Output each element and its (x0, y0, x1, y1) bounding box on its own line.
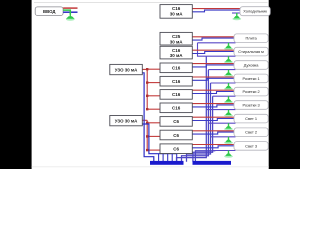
ground symbol row 5 (224, 83, 233, 90)
wire phase stub to breaker row 7 (147, 108, 160, 110)
load label Холодильник (240, 7, 270, 16)
wire neutral tick 3 on left bus (167, 154, 169, 162)
ground symbol row 2 (224, 43, 233, 50)
wire PE row 7 (206, 109, 235, 111)
divider line bottom (32, 166, 269, 168)
wire phase bus vertical УЗО 1 group (146, 68, 148, 109)
faint rule top (34, 2, 268, 4)
load label Духовка (234, 61, 268, 70)
wire PE row 3 (206, 55, 235, 57)
svg-text:30 мА: 30 мА (170, 53, 184, 58)
wire phase row 1 (192, 8, 240, 10)
breaker C6 row 10 (160, 144, 192, 154)
wire phase stub to breaker row 10 (147, 149, 160, 151)
wire PE riser 5 to earth bus (195, 151, 214, 162)
ground symbol row 8 (224, 123, 233, 130)
ground symbol row 3 (224, 56, 233, 63)
svg-text:C16: C16 (172, 48, 181, 53)
wire phase row 8 (192, 116, 234, 118)
wire neutral row 4 (192, 65, 234, 67)
svg-text:30 мА: 30 мА (170, 39, 184, 44)
svg-text:Свет 3: Свет 3 (245, 143, 257, 148)
wire neutral row 1 (192, 10, 240, 12)
load label Розетки 2 (234, 87, 268, 96)
wire phase bus vertical УЗО 2 group (146, 120, 148, 150)
svg-text:C16: C16 (172, 6, 181, 11)
wire phase row 3 (192, 49, 234, 51)
svg-text:C16: C16 (172, 106, 181, 111)
wire neutral tick 4 on left bus (171, 154, 173, 162)
RCD УЗО 2 30 мА (110, 116, 143, 126)
wire L phase stub from ВВОД (63, 7, 77, 9)
wire PE stub from ВВОД (63, 10, 70, 14)
breaker C6 row 9 (160, 130, 192, 140)
ground symbol row 1 (232, 13, 241, 20)
svg-text:C6: C6 (173, 147, 179, 152)
ground symbol row 7 (224, 110, 233, 117)
breaker C16 30 мА row 3 (160, 46, 192, 59)
RCD УЗО 1 30 мА (110, 64, 143, 74)
wire phase stub to breaker row 5 (147, 82, 160, 84)
svg-text:Свет 1: Свет 1 (245, 116, 257, 121)
wire neutral row 10 (192, 146, 234, 148)
svg-text:Духовка: Духовка (244, 62, 260, 67)
svg-text:Свет 2: Свет 2 (245, 130, 257, 135)
neutral bus bar N (150, 161, 184, 165)
load label Розетки 3 (234, 101, 268, 110)
wire PE riser 1 to earth bus (177, 56, 207, 162)
junction node row 8 (146, 122, 148, 124)
wire PE row 2 (198, 42, 236, 44)
svg-text:Холодильник: Холодильник (243, 9, 267, 14)
wire N neutral stub from ВВОД (63, 11, 77, 13)
load label Розетки 1 (234, 74, 268, 83)
junction node row 4 (146, 68, 148, 70)
wire PE riser 4 to earth bus (193, 96, 213, 162)
wire neutral tick 2 on left bus (162, 154, 164, 162)
wire phase stub to breaker row 9 (147, 135, 160, 137)
wire neutral tick 5 on left bus (176, 154, 178, 162)
wire neutral row 7 (192, 105, 234, 107)
wire PE riser 3 to earth bus (187, 83, 211, 162)
black pillarbox left (0, 0, 32, 169)
breaker C16 row 7 (160, 103, 192, 113)
breaker C16 30 мА row 1 (160, 5, 192, 19)
svg-text:C16: C16 (172, 66, 181, 71)
breaker C16 row 5 (160, 76, 192, 86)
breaker C25 30 мА row 2 (160, 32, 192, 45)
wire neutral row 8 (192, 119, 234, 121)
junction node row 10 (146, 149, 148, 151)
svg-text:Розетки 2: Розетки 2 (242, 89, 259, 94)
load label Плита (234, 34, 268, 43)
wire PE row 5 (211, 82, 236, 84)
wire phase row 10 (192, 144, 234, 146)
load label Свет 1 (234, 114, 268, 123)
svg-text:Розетки 1: Розетки 1 (242, 76, 259, 81)
load label Стиральная м (234, 47, 268, 56)
wire PE row 10 (213, 150, 236, 152)
svg-text:C6: C6 (173, 133, 179, 138)
wire neutral tick 1 on left bus (158, 154, 160, 162)
wire phase row 6 (192, 89, 234, 91)
wire phase stub to breaker row 6 (147, 95, 160, 97)
svg-text:C16: C16 (172, 92, 181, 97)
wire PE stub row 1 (232, 12, 242, 14)
svg-text:УЗО 30 мА: УЗО 30 мА (115, 68, 138, 73)
ground symbol row 6 (224, 96, 233, 103)
svg-text:C6: C6 (173, 119, 179, 124)
wire neutral drop from УЗО 2 (142, 124, 177, 154)
wire phase feed from УЗО 2 (142, 119, 147, 121)
wire phase row 5 (192, 76, 234, 78)
wire PE riser 2 to earth bus (182, 70, 209, 162)
ground symbol row 9 (224, 137, 233, 144)
main input box ВВОД (35, 7, 63, 16)
junction node row 9 (146, 135, 148, 137)
wire neutral row 6 (192, 92, 234, 94)
junction node row 5 (146, 81, 148, 83)
wire phase row 9 (192, 130, 234, 132)
svg-text:C25: C25 (172, 34, 181, 39)
load label Свет 3 (234, 142, 268, 151)
junction node row 7 (146, 108, 148, 110)
breaker C16 row 4 (160, 63, 192, 73)
svg-text:Плита: Плита (246, 36, 258, 41)
wire phase row 4 (192, 63, 234, 65)
svg-text:Стиральная м: Стиральная м (238, 49, 264, 54)
wire neutral row 3 (192, 52, 234, 54)
svg-text:УЗО 30 мА: УЗО 30 мА (115, 119, 138, 124)
wire phase stub to breaker row 8 (147, 122, 160, 124)
ground symbol at ВВОД (66, 13, 75, 21)
wire neutral row 9 (192, 132, 234, 134)
wire PE row 8 (208, 122, 235, 124)
background canvas (0, 0, 300, 169)
wire PE row 9 (211, 136, 236, 138)
black pillarbox right (269, 0, 300, 169)
wire phase row 2 (192, 36, 234, 38)
wire neutral row 5 (192, 78, 234, 80)
svg-text:C16: C16 (172, 79, 181, 84)
wire phase feed from УЗО 1 (142, 68, 147, 70)
wire PE row 4 (208, 69, 235, 71)
wire phase row 7 (192, 103, 234, 105)
breaker C16 row 6 (160, 90, 192, 100)
junction node row 6 (146, 95, 148, 97)
svg-text:Розетки 3: Розетки 3 (242, 102, 259, 107)
wire neutral row 2 (192, 38, 234, 40)
breaker C6 row 8 (160, 117, 192, 127)
ground symbol row 4 (224, 70, 233, 77)
protective earth bus bar PE (193, 161, 232, 165)
wire PE cascade row 2 riser (198, 43, 207, 56)
wire PE row 6 (213, 95, 236, 97)
svg-text:30 мА: 30 мА (170, 12, 184, 17)
wire neutral drop from УЗО 1 (142, 73, 154, 162)
svg-text:ВВОД: ВВОД (43, 9, 55, 14)
load label Свет 2 (234, 128, 268, 137)
wire phase stub to breaker row 4 (147, 68, 160, 70)
ground symbol row 10 (224, 151, 233, 158)
